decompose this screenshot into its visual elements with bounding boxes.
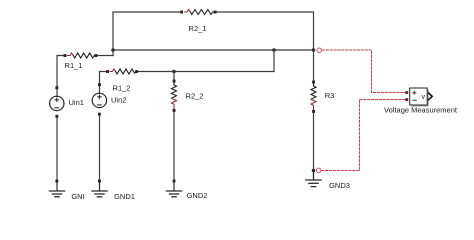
wire top rail right segment	[217, 12, 314, 50]
wire R2_2 branch upper	[173, 72, 175, 81]
svg-text:v: v	[421, 94, 425, 101]
wire R2_2 branch lower	[173, 112, 175, 180]
svg-text:GND3: GND3	[329, 181, 350, 190]
svg-text:Voltage Measurement: Voltage Measurement	[384, 106, 458, 115]
resistor R1_2	[106, 69, 138, 74]
svg-text:R3: R3	[325, 91, 335, 100]
wire R3 branch upper	[313, 50, 315, 81]
red open node plus	[317, 48, 322, 53]
junction node minus tap	[312, 169, 316, 173]
wire R1_1 to bus riser	[97, 55, 113, 57]
wire Uin1 to ground	[56, 118, 58, 180]
resistor R2_2	[172, 80, 177, 112]
voltage source Uin1	[50, 86, 64, 117]
wire rail1 (upper middle bus)	[113, 49, 314, 51]
voltage measurement block U1	[405, 88, 432, 107]
ground GND3	[306, 171, 321, 187]
voltage source Uin2	[92, 83, 106, 115]
red dashed wire plus branch	[322, 50, 405, 93]
junction node at x274	[272, 48, 276, 52]
wire top rail left segment	[113, 12, 180, 56]
svg-text:R1_2: R1_2	[113, 83, 131, 92]
junction node at x313	[312, 48, 316, 52]
ground GND2	[166, 180, 181, 197]
svg-text:R2_1: R2_1	[189, 24, 207, 33]
svg-text:Uin1: Uin1	[69, 98, 84, 107]
svg-text:GNI: GNI	[71, 192, 84, 201]
ground GND1	[92, 180, 107, 197]
resistor R3	[311, 81, 316, 113]
resistor R1_1	[64, 53, 98, 58]
wire R1_1 row	[57, 56, 64, 87]
svg-text:GND2: GND2	[187, 191, 208, 200]
svg-text:R2_2: R2_2	[186, 91, 204, 100]
wire Uin2 to ground	[99, 115, 101, 180]
wire R3 to ground node	[313, 113, 315, 179]
ground GNI	[49, 180, 64, 197]
wire rail2 row (R1_2 row)	[100, 72, 107, 84]
svg-text:R1_1: R1_1	[65, 61, 83, 70]
junction node at x113	[111, 48, 115, 52]
svg-text:Uin2: Uin2	[111, 96, 126, 105]
resistor R2_1	[180, 10, 216, 15]
svg-text:GND1: GND1	[114, 192, 135, 201]
red open node minus	[316, 168, 321, 173]
wire rail2 to riser x274	[139, 50, 274, 72]
junction node at R2_2 tap	[172, 70, 176, 74]
red dashed wire minus branch	[322, 100, 405, 171]
